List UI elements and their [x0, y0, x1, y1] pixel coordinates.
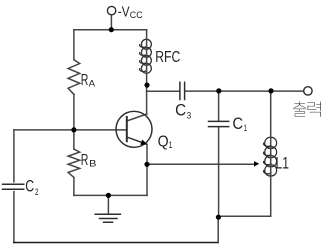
resistor RA — [68, 60, 80, 95]
svg-text:C: C — [175, 101, 186, 119]
transistor Q1 base bar — [126, 117, 128, 141]
svg-text:-V: -V — [118, 3, 130, 20]
junction dot base — [71, 127, 76, 132]
wire C1 bottom lead — [218, 127, 220, 217]
arrowhead L1 tap — [254, 161, 259, 167]
svg-text:C: C — [25, 178, 34, 196]
wire emitter vertical — [146, 144, 148, 195]
transistor Q1 circle — [116, 111, 152, 147]
junction dot Vcc rail — [109, 27, 114, 32]
svg-text:L1: L1 — [276, 155, 290, 173]
svg-text:1: 1 — [169, 140, 173, 151]
wire bottom rail — [14, 242, 218, 244]
inductor RFC — [140, 39, 152, 73]
wire top rail — [74, 29, 147, 31]
capacitor C1 plates — [209, 121, 229, 126]
wire sub rail emitter-RB — [74, 194, 147, 196]
junction dot ground — [106, 193, 111, 198]
junction dot C1 top — [216, 88, 221, 93]
svg-text:C: C — [233, 115, 244, 133]
arrowhead emitter — [140, 140, 147, 145]
svg-text:A: A — [89, 79, 96, 90]
wire C2 top lead — [13, 130, 15, 182]
svg-text:R: R — [81, 72, 89, 89]
wire RA bottom lead — [73, 94, 75, 129]
svg-text:2: 2 — [35, 187, 39, 198]
wire RB top lead — [73, 130, 75, 149]
wire bottom riser — [217, 217, 219, 242]
resistor RB — [68, 149, 80, 178]
svg-text:RFC: RFC — [155, 49, 180, 66]
wire ground stub — [107, 195, 109, 213]
terminal -Vcc circle — [107, 6, 115, 14]
junction dot emitter — [144, 162, 149, 167]
wire C2 bottom lead — [13, 192, 15, 243]
wire L1 bottom lead — [270, 91, 272, 216]
wire collector to C3 — [147, 90, 180, 92]
wire RA top lead — [73, 30, 75, 60]
wire base rail — [14, 129, 127, 131]
junction dot collector — [144, 83, 149, 88]
wire C3 to output — [185, 90, 303, 92]
ground — [95, 214, 120, 222]
terminal output circle — [304, 87, 312, 95]
inductor L1 — [264, 137, 277, 176]
label output (Korean) — [293, 101, 321, 116]
svg-text:1: 1 — [244, 123, 247, 134]
svg-text:B: B — [89, 159, 96, 170]
svg-text:Q: Q — [158, 133, 169, 150]
svg-text:3: 3 — [187, 110, 192, 121]
junction dot bottom — [216, 215, 221, 220]
wire emitter arrow line — [147, 163, 255, 165]
capacitor C3 plates — [180, 82, 185, 99]
wire collector diagonal — [127, 114, 147, 121]
wire C1 top lead — [218, 91, 220, 121]
svg-text:R: R — [81, 152, 89, 169]
wire L1 bottom horizontal — [218, 215, 270, 217]
transistor Q1 emitter diagonal — [127, 137, 143, 143]
wire RB bottom lead — [73, 178, 75, 196]
wire -Vcc stub — [110, 15, 112, 30]
capacitor C2 plates — [3, 184, 24, 189]
junction dot L1 top — [268, 88, 273, 93]
wire RFC bottom / collector lead — [146, 30, 148, 114]
svg-text:CC: CC — [130, 10, 143, 21]
